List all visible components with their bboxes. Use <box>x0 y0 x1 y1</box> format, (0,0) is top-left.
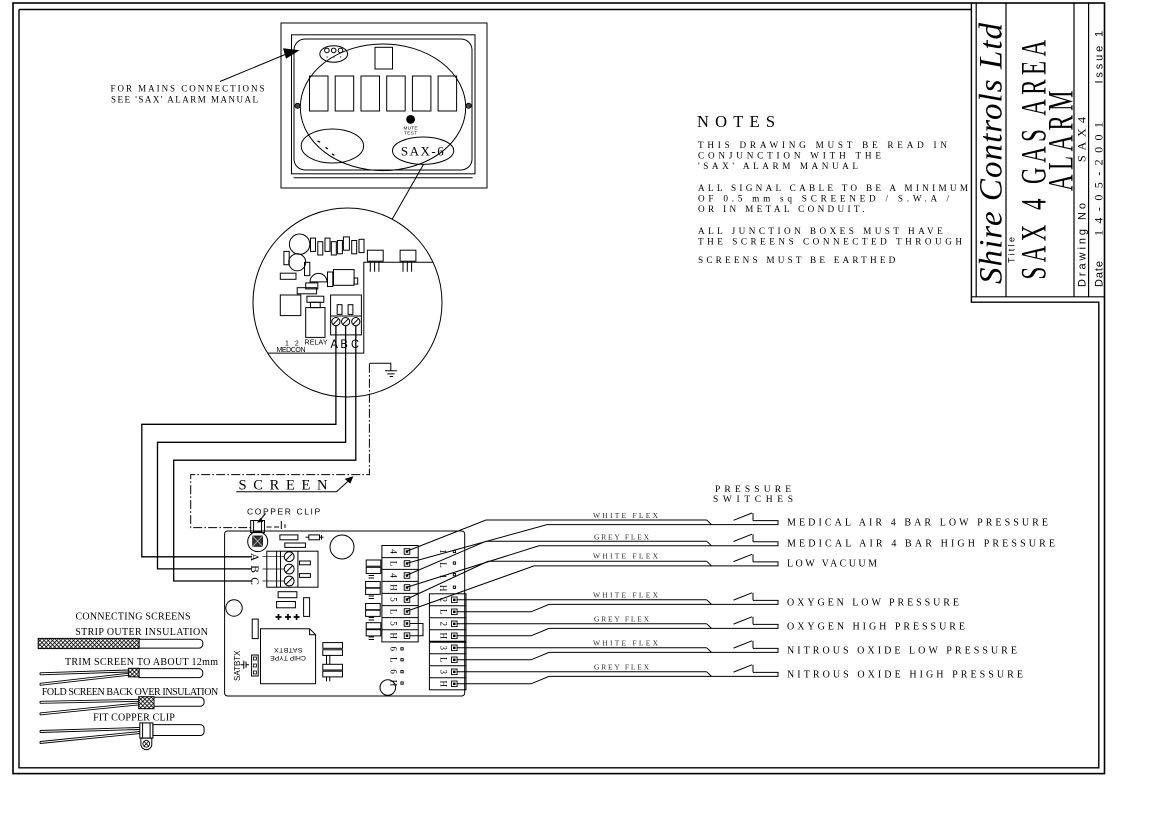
cable 7 switch <box>707 665 778 677</box>
cable 5 switch <box>707 617 778 629</box>
svg-text:3: 3 <box>438 670 448 675</box>
dash to earth mark <box>267 526 280 528</box>
svg-text:COPPER CLIP: COPPER CLIP <box>247 507 322 517</box>
right block pads <box>452 597 458 687</box>
svg-text:LOW VACUUM: LOW VACUUM <box>787 559 877 570</box>
svg-text:H: H <box>389 584 399 591</box>
mute test button <box>407 116 415 124</box>
alarm panel lid seam line <box>294 177 473 179</box>
terminal label H cell 8 left block <box>389 633 399 640</box>
pcb terminal screws <box>284 552 294 586</box>
labels 6L 6H below block <box>389 647 399 687</box>
main pcb outline <box>225 531 465 696</box>
relay tall box <box>306 308 325 338</box>
title label <box>1007 237 1017 263</box>
svg-text:FOR MAINS CONNECTIONS: FOR MAINS CONNECTIONS <box>111 84 265 94</box>
3 pin connector <box>252 655 259 676</box>
svg-text:TEST: TEST <box>404 131 417 136</box>
svg-text:'SAX' ALARM MANUAL: 'SAX' ALARM MANUAL <box>698 161 858 171</box>
test point 2 <box>285 614 291 620</box>
link resistors column <box>366 560 381 640</box>
SAX-6 badge ellipse <box>393 137 454 164</box>
svg-text:Shire Controls Ltd: Shire Controls Ltd <box>974 23 1010 285</box>
figure 1 cable hatched <box>38 638 139 648</box>
resistor 2 <box>285 543 306 547</box>
svg-text:STRIP OUTER INSULATION: STRIP OUTER INSULATION <box>75 627 208 638</box>
title company name <box>974 23 1010 285</box>
figure 4 wires <box>40 728 140 744</box>
mains note arrow <box>220 53 290 82</box>
svg-text:Issue 1: Issue 1 <box>1094 31 1106 84</box>
notes paragraph 1 <box>698 140 968 265</box>
svg-text:H: H <box>438 585 448 592</box>
alarm panel rounded face plate <box>294 39 472 170</box>
resistor row r2 <box>318 242 323 255</box>
svg-text:SEE 'SAX' ALARM MANUAL: SEE 'SAX' ALARM MANUAL <box>111 95 258 105</box>
clip mounting hole <box>248 532 268 552</box>
figure 4 clip <box>140 723 153 738</box>
svg-text:NITROUS OXIDE LOW PRESSURE: NITROUS OXIDE LOW PRESSURE <box>787 646 1017 657</box>
svg-text:CHIP TYPE: CHIP TYPE <box>270 654 306 661</box>
svg-text:OR IN METAL CONDUIT.: OR IN METAL CONDUIT. <box>698 204 865 214</box>
relay small box <box>334 270 355 286</box>
resistor row r6 <box>343 237 349 250</box>
terminal label L cell 6 left block <box>389 609 399 615</box>
svg-text:THIS DRAWING MUST BE READ IN: THIS DRAWING MUST BE READ IN <box>698 140 947 150</box>
mounting hole top right <box>330 535 354 559</box>
svg-text:H: H <box>438 681 448 688</box>
svg-text:NOTES: NOTES <box>697 112 775 131</box>
svg-text:5: 5 <box>389 597 399 602</box>
drawing no label <box>1077 203 1089 287</box>
figure 1 cable plain <box>139 639 203 648</box>
svg-text:MEDCON: MEDCON <box>277 347 306 354</box>
date value <box>1092 122 1106 236</box>
figure 2 screen stub <box>128 668 139 677</box>
terminal label H cell 4 left block <box>389 584 399 591</box>
svg-text:WHITE FLEX: WHITE FLEX <box>593 511 659 520</box>
svg-text:GREY FLEX: GREY FLEX <box>594 533 650 542</box>
sounder ellipse <box>301 129 363 163</box>
zoom circle (MEDCON board detail) <box>253 208 442 397</box>
ground symbol <box>385 371 397 377</box>
figure 2 cable plain <box>139 669 203 678</box>
display window 1 <box>310 76 329 111</box>
right screw <box>466 103 471 108</box>
svg-text:PRESSURE: PRESSURE <box>715 485 791 495</box>
cable 6 switch <box>707 641 778 653</box>
svg-text:L: L <box>389 657 399 663</box>
left screw <box>295 103 300 108</box>
figure 3 cable plain <box>154 697 204 706</box>
svg-text:MEDICAL AIR 4 BAR LOW PRESSURE: MEDICAL AIR 4 BAR LOW PRESSURE <box>787 518 1048 529</box>
svg-text:L: L <box>438 562 448 568</box>
svg-text:H: H <box>389 633 399 640</box>
svg-text:SAX-6: SAX-6 <box>401 144 445 159</box>
cable 3 conductors <box>406 561 712 611</box>
svg-text:GREY FLEX: GREY FLEX <box>594 663 650 672</box>
right block labels rotated <box>438 598 448 688</box>
wire B from medcon <box>158 326 346 569</box>
left terminal block <box>382 546 418 642</box>
svg-text:H: H <box>389 680 399 687</box>
figure 4 cable plain <box>153 725 204 736</box>
resistor above block <box>280 535 298 540</box>
terminal label 5 cell 7 left block <box>389 621 399 626</box>
display window 6 <box>438 76 457 111</box>
svg-text:WHITE FLEX: WHITE FLEX <box>593 591 659 600</box>
resistor mid 2 <box>277 602 296 608</box>
mini earth mark <box>281 521 285 529</box>
svg-text:SCREEN: SCREEN <box>239 478 329 494</box>
resistor row r7 <box>352 241 357 254</box>
thin leads letters to screws <box>263 557 285 581</box>
cap symbol <box>241 661 250 669</box>
date label <box>1094 261 1106 287</box>
svg-text:4: 4 <box>389 573 399 578</box>
regulator 2 <box>400 250 416 261</box>
alarm panel face ellipse <box>300 44 465 171</box>
cable 5 conductors <box>457 624 712 636</box>
svg-text:L: L <box>438 609 448 615</box>
cap left of chip <box>252 619 258 639</box>
resistor row r1 <box>311 238 316 251</box>
svg-text:CONNECTING SCREENS: CONNECTING SCREENS <box>76 612 191 623</box>
svg-text:L: L <box>389 609 399 615</box>
left block pads <box>404 549 410 639</box>
medcon screws <box>332 318 360 326</box>
terminal label 5 cell 5 left block <box>389 597 399 602</box>
svg-text:GREY FLEX: GREY FLEX <box>594 615 650 624</box>
medcon terminal block <box>331 295 362 335</box>
test point 3 <box>294 614 300 620</box>
title block <box>971 3 1104 297</box>
svg-text:CONJUNCTION WITH THE: CONJUNCTION WITH THE <box>698 151 881 161</box>
detail pointer line from SAX-6 to zoom circle <box>392 165 423 220</box>
cable 6 conductors <box>457 648 712 660</box>
svg-text:OXYGEN LOW PRESSURE: OXYGEN LOW PRESSURE <box>787 598 959 609</box>
cable 3 switch <box>707 554 778 566</box>
drawing no value <box>1075 117 1089 162</box>
main chip <box>261 629 316 684</box>
sounder marks <box>318 141 335 155</box>
small rects pair <box>306 283 318 289</box>
big ic square <box>280 295 301 316</box>
svg-text:WHITE FLEX: WHITE FLEX <box>593 552 659 561</box>
alarm panel inner box <box>292 35 476 174</box>
svg-text:SATBTX: SATBTX <box>233 650 242 681</box>
svg-text:RELAY: RELAY <box>305 340 328 347</box>
top window <box>375 47 393 69</box>
svg-text:Drawing No: Drawing No <box>1077 203 1089 287</box>
cable 7 conductors <box>457 672 712 684</box>
diode <box>306 535 324 540</box>
satbtx label (rotated) <box>233 650 242 681</box>
vertical cap <box>328 272 333 287</box>
disc capacitor <box>289 254 306 271</box>
chip text (rotated 180) <box>274 646 303 653</box>
svg-text:ALL JUNCTION BOXES MUST HAVE: ALL JUNCTION BOXES MUST HAVE <box>698 226 943 236</box>
cable 4 conductors <box>457 600 712 612</box>
horizontal resistor <box>280 273 296 279</box>
electrolytic capacitor <box>289 234 309 254</box>
svg-text:SATBTX: SATBTX <box>274 646 303 653</box>
link between pads 7 and 8 <box>410 624 423 636</box>
svg-text:14-05-2001: 14-05-2001 <box>1092 122 1106 236</box>
cable 2 switch <box>707 534 778 546</box>
resistor mid 1 <box>278 592 297 598</box>
terminal label 4 cell 3 left block <box>389 573 399 578</box>
figure 2 wires <box>40 670 128 685</box>
flex labels <box>593 511 659 672</box>
figure 3 wires <box>40 699 139 715</box>
display window 4 <box>387 76 406 111</box>
mains LEDs <box>325 48 330 53</box>
figure 4 clip tail <box>141 738 152 750</box>
issue label <box>1094 31 1106 84</box>
resistor row r3 <box>325 238 330 251</box>
title line 2 <box>1041 86 1081 191</box>
cable 2 conductors <box>406 541 712 587</box>
resistor row r8 <box>359 239 364 252</box>
rotated letters A B C <box>248 553 260 585</box>
clip crimp <box>253 536 263 546</box>
figure 3 screen fold <box>139 697 154 709</box>
svg-text:B: B <box>248 565 260 573</box>
svg-text:5: 5 <box>389 621 399 626</box>
resistor row r5 <box>337 241 342 254</box>
title line 1 <box>1014 36 1054 280</box>
svg-text:3: 3 <box>438 646 448 651</box>
svg-text:WHITE FLEX: WHITE FLEX <box>593 639 659 648</box>
small resistor <box>305 262 310 275</box>
terminal label 4 cell 1 left block <box>389 549 399 554</box>
medcon board outline <box>268 262 433 353</box>
right terminal block <box>429 594 466 690</box>
svg-text:SWITCHES: SWITCHES <box>713 495 793 505</box>
cable 1 conductors <box>406 520 712 564</box>
svg-text:OF 0.5 mm sq SCREENED / S.W.A: OF 0.5 mm sq SCREENED / S.W.A / <box>698 194 949 204</box>
ground branch in circle <box>369 363 390 370</box>
copper clip on pcb <box>251 521 265 533</box>
svg-text:OXYGEN HIGH PRESSURE: OXYGEN HIGH PRESSURE <box>787 622 965 633</box>
mains LED cluster ellipse <box>320 46 348 62</box>
display window 5 <box>412 76 431 111</box>
cap over relay <box>307 296 324 302</box>
pcb terminal block <box>267 551 318 587</box>
svg-text:Date: Date <box>1094 261 1106 287</box>
regulator 1 <box>367 250 383 261</box>
display window 3 <box>361 76 380 111</box>
labels 1L 1H at board edge <box>438 549 448 592</box>
mounting hole left <box>226 600 242 616</box>
wire C from medcon <box>174 326 356 581</box>
svg-text:A: A <box>248 553 260 562</box>
svg-text:2: 2 <box>438 622 448 627</box>
display window 2 <box>335 76 354 111</box>
cable 4 switch <box>707 593 778 605</box>
connector block right of chip 2 <box>323 664 343 670</box>
svg-text:NITROUS OXIDE HIGH PRESSURE: NITROUS OXIDE HIGH PRESSURE <box>787 670 1023 681</box>
wire A from medcon <box>142 326 336 557</box>
test point 1 <box>276 614 282 620</box>
svg-text:FIT COPPER CLIP: FIT COPPER CLIP <box>93 713 175 724</box>
svg-text:C: C <box>248 577 260 585</box>
svg-text:THE SCREENS CONNECTED THROUGH: THE SCREENS CONNECTED THROUGH <box>698 237 962 247</box>
cable 1 switch <box>707 513 778 525</box>
switch name labels <box>787 518 1055 681</box>
small cap left <box>284 251 289 264</box>
alarm panel outer box <box>281 23 487 188</box>
svg-text:4: 4 <box>389 549 399 554</box>
mains note text <box>111 84 265 105</box>
svg-text:H: H <box>438 633 448 640</box>
mounting hole bottom right <box>380 680 396 696</box>
cap vertical mid <box>304 598 310 617</box>
left block labels rotated <box>389 549 399 639</box>
svg-text:MEDICAL AIR 4 BAR HIGH PRESSUR: MEDICAL AIR 4 BAR HIGH PRESSURE <box>787 539 1055 550</box>
dome transistor <box>310 273 327 281</box>
svg-text:6: 6 <box>389 669 399 674</box>
svg-text:A B C: A B C <box>331 337 360 351</box>
connector block right of chip 1 <box>323 643 343 649</box>
screen dash-dot route <box>191 364 370 528</box>
svg-text:L: L <box>438 657 448 663</box>
terminal label L cell 2 left block <box>389 561 399 567</box>
resistor row r4 <box>331 242 336 255</box>
svg-text:6: 6 <box>389 647 399 652</box>
svg-text:SCREENS MUST BE EARTHED: SCREENS MUST BE EARTHED <box>698 255 896 265</box>
svg-text:TRIM SCREEN TO ABOUT 12mm: TRIM SCREEN TO ABOUT 12mm <box>65 657 218 668</box>
svg-text:FOLD SCREEN BACK OVER INSULATI: FOLD SCREEN BACK OVER INSULATION <box>42 687 219 698</box>
svg-text:ALL SIGNAL CABLE TO BE A MINIM: ALL SIGNAL CABLE TO BE A MINIMUM <box>698 183 968 193</box>
svg-text:L: L <box>389 561 399 567</box>
